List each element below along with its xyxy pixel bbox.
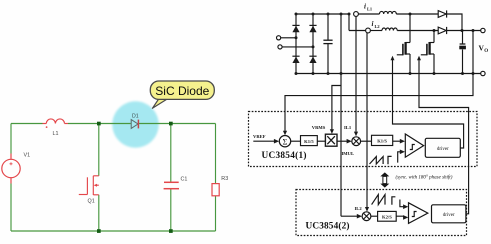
- wire bottom rail: [296, 73, 481, 75]
- svg-text:K1/5: K1/5: [304, 139, 314, 144]
- wire diode2 to output terminal: [447, 30, 481, 32]
- wire L2 branch horizontal: [349, 30, 366, 32]
- highlight circle around D1: [112, 101, 158, 147]
- svg-text:(sync. with 180° phase shift): (sync. with 180° phase shift): [396, 175, 453, 180]
- svg-text:Q1: Q1: [88, 199, 95, 205]
- wire probe1 to L1: [358, 13, 379, 15]
- wire sawtooth2 to comparator2 upper input: [400, 200, 404, 207]
- wire VREF arrow into summer: [253, 140, 274, 142]
- AC input terminal 1: [277, 36, 281, 40]
- wire gate drive 2: driver2 up and left to S2 gate: [419, 59, 469, 214]
- comparator 1: [405, 134, 423, 157]
- wire diode1 to corner, down: [447, 14, 462, 31]
- sawtooth oscillator 1: [370, 157, 384, 164]
- boost diode 1: [438, 10, 446, 17]
- svg-text:IL1: IL1: [344, 125, 352, 130]
- AC input terminal 2: [278, 45, 282, 49]
- node dots on rails: [295, 13, 475, 76]
- dashed box UC3854(2): [296, 190, 467, 236]
- node C1-bottom junction: [169, 229, 173, 233]
- wire circle-mult2 to K2/S: [371, 215, 378, 217]
- svg-text:L1: L1: [367, 7, 372, 12]
- wire Q1 drain column: [98, 124, 100, 176]
- wire multiplier to circle-mult with arrow: [337, 140, 347, 142]
- wire top rail: [296, 13, 349, 15]
- svg-text:VRMS: VRMS: [312, 125, 326, 130]
- comparator 2: [409, 203, 428, 224]
- summer sigma: [279, 136, 290, 147]
- svg-text:K1/S: K1/S: [377, 139, 387, 144]
- svg-text:i: i: [364, 3, 366, 11]
- wire jog to VRMS input: [332, 86, 341, 131]
- diode D1 (SiC): [131, 120, 138, 129]
- inductor L2 (boost): [382, 28, 397, 31]
- wire L2 branch drop: [348, 14, 350, 31]
- svg-text:V1: V1: [24, 153, 31, 159]
- wire bridge left leg: [295, 14, 297, 74]
- boost diode 2: [438, 27, 446, 34]
- wire circle-mult to K1/S: [361, 140, 372, 142]
- mosfet Q1: [79, 176, 99, 195]
- wire input 1 to bridge left leg: [281, 37, 296, 39]
- block K1/5: [301, 136, 318, 146]
- svg-text:L2: L2: [375, 24, 380, 29]
- wire voltage feedback from output rail to summer: [285, 31, 473, 132]
- svg-text:IL2: IL2: [355, 206, 363, 211]
- resistor R3: [212, 184, 219, 196]
- wire L2 to diode2: [397, 30, 438, 32]
- node Q1-drain junction: [97, 122, 101, 126]
- wire iL2 sense down to multiplier2: [366, 33, 368, 208]
- multiplier box X: [325, 134, 337, 146]
- svg-text:VREF: VREF: [253, 134, 266, 139]
- svg-text:O: O: [484, 49, 488, 54]
- dashed box UC3854(1): [249, 112, 478, 167]
- wire C1 column upper: [170, 124, 172, 183]
- svg-text:L1: L1: [53, 131, 59, 137]
- voltage source V1: [2, 154, 20, 184]
- svg-text:UC3854(1): UC3854(1): [262, 150, 307, 161]
- output terminal bottom: [481, 71, 485, 75]
- svg-text:UC3854(2): UC3854(2): [306, 220, 350, 231]
- svg-text:Σ: Σ: [283, 137, 288, 146]
- wire left vertical above V1: [10, 124, 12, 154]
- svg-text:R3: R3: [221, 176, 228, 182]
- svg-text:driver: driver: [443, 213, 455, 218]
- wire iL1 sense down to multiplier1: [355, 16, 357, 131]
- filter capacitor after bridge: [323, 14, 332, 74]
- block K2/S: [378, 211, 397, 221]
- wire R3 column upper: [215, 124, 217, 184]
- wire probe2 to L2: [370, 30, 382, 32]
- wire Q1 source column: [98, 195, 100, 231]
- wire C1 column lower: [170, 189, 172, 231]
- wire bridge right leg: [312, 14, 314, 74]
- driver 2 box: [432, 205, 466, 223]
- svg-text:SiC Diode: SiC Diode: [155, 84, 209, 98]
- bridge diode lower-left: [292, 56, 299, 63]
- current probe circle iL2: [366, 28, 371, 33]
- svg-text:i: i: [372, 20, 374, 28]
- bridge diode upper-right: [309, 25, 316, 32]
- wire gate drive 1: driver1 up and left to S1 gate: [393, 59, 464, 148]
- wire K2/S to comparator2 lower input: [396, 216, 403, 217]
- svg-text:IMUL: IMUL: [342, 151, 355, 156]
- output terminal top: [481, 28, 485, 32]
- wire sense/feed vertical x341 top-rail down to lower controller: [340, 14, 342, 216]
- wire L1 to diode: [396, 13, 438, 15]
- wire VRMS arrowhead into multiplier box: [330, 129, 334, 134]
- svg-text:driver: driver: [437, 147, 449, 152]
- wire R3 column lower: [215, 196, 217, 231]
- wire left vertical below V1: [10, 184, 12, 232]
- output capacitor Co: [459, 31, 466, 74]
- current probe circle iL1: [354, 12, 359, 17]
- wire D1 to top-right corner: [139, 123, 216, 125]
- wire K1/5 to multiplier box: [317, 140, 325, 142]
- wire L1 to D1: [68, 123, 131, 125]
- wire K1/S to comparator with arrow: [393, 140, 401, 142]
- svg-text:K2/S: K2/S: [382, 215, 392, 220]
- inductor L1 (boost): [380, 11, 397, 14]
- circle multiplier 2: [362, 212, 371, 221]
- node Q1-source bottom junction: [97, 229, 101, 233]
- block K1/S: [372, 135, 393, 145]
- wire bottom rail: [11, 230, 216, 232]
- bridge diode upper-left: [292, 25, 299, 32]
- callout SiC Diode: [150, 81, 214, 108]
- sync double arrow: [380, 172, 389, 176]
- svg-text:C1: C1: [181, 177, 188, 183]
- svg-text:D1: D1: [132, 114, 139, 120]
- sawtooth oscillator 2: [372, 195, 385, 205]
- wire sawtooth to comparator lower input: [398, 152, 401, 163]
- driver 1 box: [425, 138, 460, 157]
- mosfet S2: [421, 31, 434, 74]
- mosfet S1: [397, 14, 410, 74]
- wire input 2 to bridge right leg: [282, 46, 313, 48]
- wire summer to K1/5: [291, 140, 301, 142]
- bridge diode lower-right: [309, 56, 316, 63]
- capacitor C1: [164, 182, 179, 188]
- wire x341 into circle multiplier 2: [341, 215, 357, 217]
- circle multiplier 1: [352, 137, 361, 146]
- inductor L1: [43, 119, 69, 124]
- node C1-top junction: [169, 122, 173, 126]
- wire top-left to L1: [11, 123, 43, 125]
